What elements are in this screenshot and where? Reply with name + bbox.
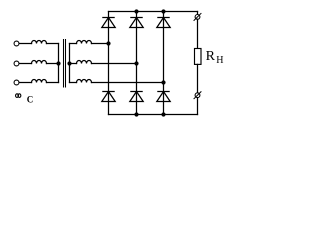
wire RH to output terminal minus — [197, 64, 199, 93]
diode VD6 (bottom, column 3) — [157, 92, 170, 102]
node bottom bus / column 3 — [161, 112, 165, 116]
wire primary star bus — [58, 44, 60, 83]
inductor L4 (secondary winding phase 1) — [77, 41, 92, 44]
node top bus / column 2 — [134, 9, 138, 13]
node secondary star point — [67, 61, 71, 65]
node top bus / column 3 — [161, 9, 165, 13]
wire secondary star bus — [69, 44, 71, 83]
terminal B (phase 2 input) — [14, 61, 19, 66]
inductor L3 (primary winding phase 3) — [32, 80, 47, 83]
inductor L5 (secondary winding phase 2) — [77, 61, 92, 64]
node primary star point — [56, 61, 60, 65]
resistor RH — [195, 49, 202, 65]
wire L5 to bridge column 2 — [92, 63, 137, 65]
wire C to L3 — [19, 82, 31, 84]
label omega-c (supply frequency) — [16, 94, 34, 105]
wire top bus to output terminal — [197, 12, 199, 15]
inductor L6 (secondary winding phase 3) — [77, 80, 92, 83]
terminal A (phase 1 input) — [14, 41, 19, 46]
wire L4 to bridge column 1 — [92, 43, 109, 45]
terminal output minus (slashed circle) — [194, 92, 201, 99]
wire bridge column 3 — [163, 12, 165, 115]
svg-text:H: H — [216, 55, 223, 66]
wire L1 to primary star bus — [47, 43, 59, 45]
wire L3 to primary star bus — [47, 82, 59, 84]
wire star to L6 — [70, 82, 77, 84]
wire top bus (+) — [109, 11, 198, 13]
wire L2 to primary star point — [47, 63, 59, 65]
transformer T1 core — [64, 40, 66, 88]
node phase 3 / column 3 junction — [161, 80, 165, 84]
svg-text:R: R — [206, 49, 216, 64]
wire star to L5 — [70, 63, 77, 65]
node phase 1 / column 1 junction — [106, 41, 110, 45]
wire B to L2 — [19, 63, 31, 65]
diode VD4 (bottom, column 1) — [102, 92, 115, 102]
svg-text:C: C — [27, 95, 34, 105]
diode VD1 (top, column 1) — [102, 18, 115, 28]
label RH — [206, 49, 224, 66]
wire terminal to RH — [197, 19, 199, 48]
inductor L1 (primary winding phase 1) — [32, 41, 47, 44]
terminal C (phase 3 input) — [14, 80, 19, 85]
diode VD5 (bottom, column 2) — [130, 92, 143, 102]
wire bridge column 1 — [108, 12, 110, 115]
wire bridge column 2 — [136, 12, 138, 115]
wire terminal to bottom bus — [197, 98, 199, 115]
node phase 2 / column 2 junction — [134, 61, 138, 65]
diode VD3 (top, column 3) — [157, 18, 170, 28]
node bottom bus / column 2 — [134, 112, 138, 116]
wire L6 to bridge column 3 — [92, 82, 164, 84]
diode VD2 (top, column 2) — [130, 18, 143, 28]
wire star to L4 — [70, 43, 77, 45]
terminal output plus (slashed circle) — [194, 13, 201, 20]
wire bottom bus (-) — [109, 114, 198, 116]
wire A to L1 — [19, 43, 31, 45]
inductor L2 (primary winding phase 2) — [32, 61, 47, 64]
